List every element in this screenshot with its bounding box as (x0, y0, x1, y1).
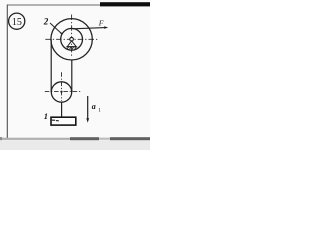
force F line (73, 28, 106, 29)
svg-text:a: a (92, 102, 96, 111)
svg-text:15: 15 (12, 17, 22, 28)
axle circle at center (70, 37, 74, 41)
frame bottom band left (2, 138, 70, 140)
support hatching (67, 47, 76, 49)
pulley 2 axis centerline vertical (dash-dot) (71, 15, 73, 58)
right string (from drum bottom to pulley 3) (71, 60, 73, 92)
acceleration a1 arrow line (87, 96, 89, 120)
frame bottom band gap (99, 138, 110, 140)
svg-text:1: 1 (98, 108, 101, 114)
svg-text:1: 1 (44, 111, 48, 121)
a1 arrowhead (86, 118, 89, 123)
frame top border (7, 4, 150, 6)
svg-text:F: F (98, 19, 104, 28)
stepped pulley 2 outer circle (51, 19, 92, 60)
movable pulley 3 (51, 82, 71, 102)
pulley 3 centerline horizontal (dash-dot) (45, 90, 81, 92)
pulley 2 axis centerline horizontal (dash-dot) (45, 38, 98, 40)
pulley 3 centerline vertical (dash-dot) (61, 72, 63, 101)
svg-text:2: 2 (43, 16, 49, 26)
fixed support triangle under axle (67, 41, 76, 47)
left string (tangent to outer rim and pulley 3) (50, 39, 52, 92)
support base line (66, 46, 77, 48)
leader dashes into block (52, 119, 56, 121)
force F arrowhead (104, 26, 108, 29)
frame bottom band left nub (0, 137, 2, 140)
stepped pulley 2 inner circle (61, 28, 83, 50)
leader arrowhead (60, 32, 62, 34)
pulley 3 center dot (60, 91, 62, 93)
circled problem number 15 (9, 13, 25, 29)
frame top-right black band (100, 2, 150, 6)
frame bottom band right (110, 137, 150, 140)
block 1 rectangle (51, 117, 76, 125)
frame bottom band middle (70, 137, 99, 140)
frame left border (6, 5, 8, 139)
hanger from pulley 3 to block 1 (61, 102, 63, 117)
leader line from label 2 to inner rim (50, 23, 62, 34)
